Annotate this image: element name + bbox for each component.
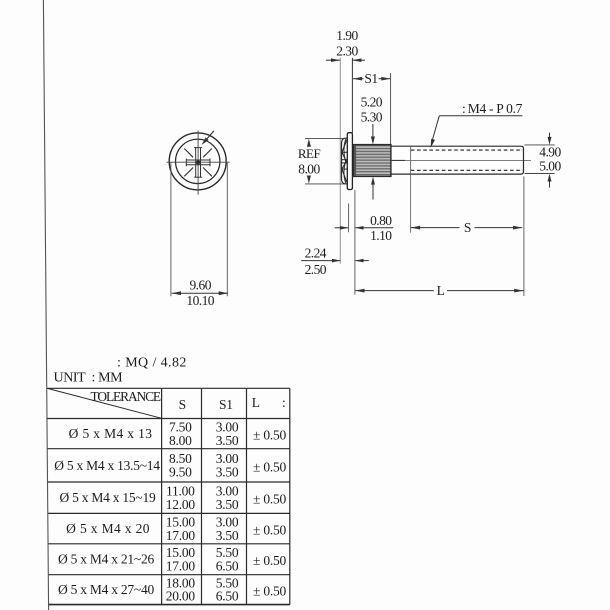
svg-text:4.90: 4.90	[539, 144, 561, 159]
svg-text:2.50: 2.50	[305, 262, 327, 277]
svg-text:± 0.50: ± 0.50	[253, 428, 286, 443]
head top view: outer circle	[169, 133, 226, 190]
svg-text:S1: S1	[364, 71, 377, 86]
dimension 9.60/10.10	[172, 278, 228, 308]
svg-text:UNIT : MM: UNIT : MM	[54, 370, 124, 385]
head top view: inner circle	[176, 139, 220, 183]
header diagonal	[48, 389, 162, 419]
svg-text:9.50: 9.50	[169, 465, 192, 480]
dimension 4.90/5.00	[525, 133, 562, 188]
S1 extension line right	[390, 73, 392, 145]
dimension 5.20/5.30 with arrows at knurl	[361, 95, 383, 200]
recess vertical slot	[194, 148, 202, 178]
knurled section	[353, 145, 391, 177]
thread dashed lines	[411, 149, 523, 151]
svg-text:8.00: 8.00	[298, 162, 320, 177]
svg-text:± 0.50: ± 0.50	[253, 523, 286, 538]
left sheet border line	[43, 0, 48, 610]
svg-text:5.30: 5.30	[361, 109, 383, 124]
svg-text::: :	[282, 395, 286, 410]
table row 5	[58, 545, 286, 573]
svg-text:± 0.50: ± 0.50	[253, 459, 286, 474]
dimension REF 8.00	[298, 139, 321, 184]
table row 4	[66, 514, 286, 542]
shaft center line	[391, 159, 531, 161]
recess diagonal arms	[184, 149, 212, 177]
svg-text:± 0.50: ± 0.50	[253, 492, 286, 507]
table row 2	[54, 451, 286, 479]
svg-text:17.00: 17.00	[166, 528, 196, 543]
svg-text:1.90: 1.90	[336, 28, 358, 43]
svg-text:17.00: 17.00	[166, 558, 196, 573]
flange	[347, 133, 352, 190]
svg-text:L: L	[437, 283, 445, 298]
svg-text:Ø 5 x M4 x 27~40: Ø 5 x M4 x 27~40	[58, 582, 154, 597]
L dimension	[355, 190, 524, 298]
table row 1	[69, 419, 287, 447]
REF 8.00 extension lines	[305, 137, 345, 139]
svg-text:3.50: 3.50	[216, 528, 239, 543]
svg-text:9.60: 9.60	[189, 278, 211, 293]
table row 6	[58, 575, 286, 603]
recess side-view detail	[342, 139, 347, 183]
svg-text:S: S	[464, 220, 471, 235]
extension line A (x=340)	[339, 58, 341, 264]
svg-text:20.00: 20.00	[166, 589, 196, 604]
leader arrow into recess	[202, 131, 214, 145]
svg-text:3.50: 3.50	[216, 497, 239, 512]
svg-text:6.50: 6.50	[216, 589, 239, 604]
dimension 1.90/2.30	[326, 28, 365, 62]
svg-text:1.10: 1.10	[370, 228, 392, 243]
svg-text:2.30: 2.30	[336, 44, 358, 59]
svg-text:3.50: 3.50	[216, 465, 239, 480]
svg-text:Ø 5 x M4 x 20: Ø 5 x M4 x 20	[66, 521, 150, 536]
svg-text:6.50: 6.50	[216, 558, 239, 573]
dimension 2.24/2.50	[301, 246, 369, 277]
table frame	[47, 388, 290, 604]
S dimension	[411, 176, 524, 296]
extension line B (x=352.4)	[351, 58, 353, 133]
recess center dot	[196, 160, 200, 164]
dimension 0.80/1.10	[335, 204, 394, 243]
svg-text:12.00: 12.00	[166, 497, 196, 512]
side view: dome head profile	[342, 138, 348, 184]
svg-text:REF: REF	[298, 146, 321, 161]
svg-text::: :	[462, 101, 465, 116]
svg-text:± 0.50: ± 0.50	[253, 584, 286, 599]
shaft outline	[391, 146, 524, 174]
head top view: horizontal center line	[167, 161, 230, 163]
dimension S1	[353, 71, 390, 86]
svg-text:Ø 5 x M4 x 21~26: Ø 5 x M4 x 21~26	[58, 552, 154, 567]
svg-text:3.50: 3.50	[216, 433, 239, 448]
svg-text:Ø 5 x M4 x 13: Ø 5 x M4 x 13	[69, 426, 153, 441]
table row 3	[60, 484, 287, 512]
svg-text:5.00: 5.00	[539, 159, 561, 174]
head top view: vertical center line	[197, 131, 199, 195]
svg-text:: MQ / 4.82: : MQ / 4.82	[117, 356, 187, 371]
svg-text:2.24: 2.24	[305, 246, 327, 261]
svg-text:TOLERANCE: TOLERANCE	[91, 389, 161, 404]
svg-text:± 0.50: ± 0.50	[253, 553, 286, 568]
svg-text:Ø 5 x M4 x 15~19: Ø 5 x M4 x 15~19	[60, 490, 156, 505]
svg-text:Ø 5 x M4 x 13.5~14: Ø 5 x M4 x 13.5~14	[54, 458, 160, 473]
svg-text:8.00: 8.00	[169, 433, 192, 448]
svg-text:5.20: 5.20	[361, 95, 383, 110]
svg-text:S1: S1	[219, 397, 233, 412]
svg-text:S: S	[179, 397, 186, 412]
svg-text:0.80: 0.80	[370, 213, 392, 228]
thread start line / S extension	[410, 146, 412, 232]
svg-text:10.10: 10.10	[186, 293, 214, 308]
recess horizontal slot	[186, 159, 210, 167]
head diameter extension lines	[170, 162, 172, 296]
svg-text:L: L	[252, 395, 260, 410]
svg-text:M4 - P 0.7: M4 - P 0.7	[468, 101, 523, 116]
label M4 - P 0.7	[431, 101, 523, 148]
